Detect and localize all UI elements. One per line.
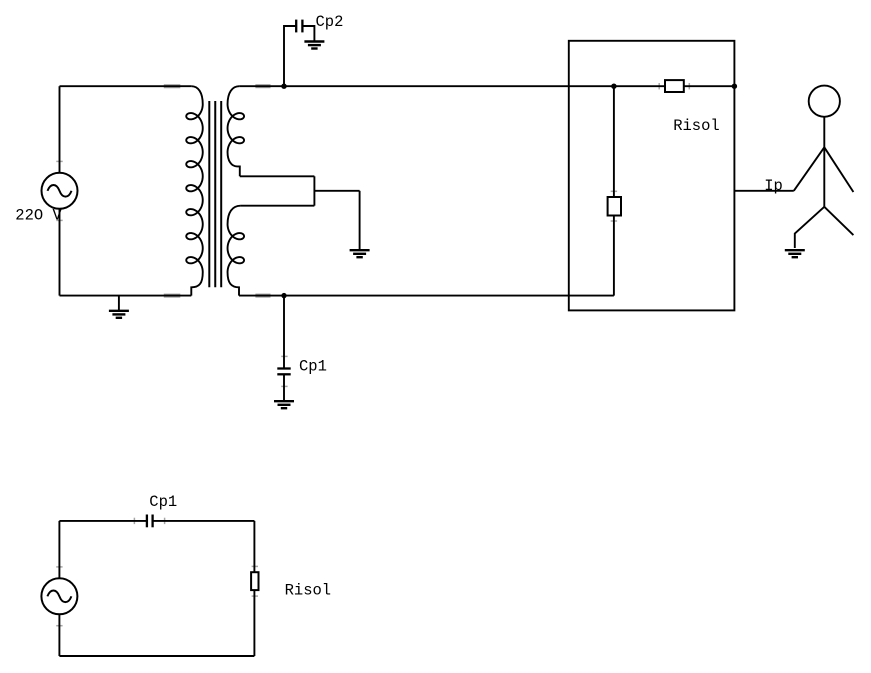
svg-text:Cp1: Cp1: [299, 357, 327, 375]
wire top-left horizontal (source to primary): [60, 85, 192, 87]
person head: [809, 86, 840, 117]
terminal tick below source V2: [56, 625, 62, 627]
bottom circuit: wire top-left segment: [59, 520, 146, 522]
overlap mark gray band top-left transformer terminal: [164, 84, 181, 88]
node A junction dot (Cp2 tap): [281, 84, 286, 89]
svg-text:Cp2: Cp2: [316, 13, 344, 31]
svg-text:Cp1: Cp1: [149, 493, 177, 511]
overlap mark gray band bottom-right transformer terminal: [255, 294, 270, 298]
wire center-tap lower horizontal: [241, 205, 315, 207]
terminal tick left of resistor R1: [658, 83, 660, 89]
resistor R3 Risol (bottom circuit): [251, 572, 258, 590]
person left leg: [795, 207, 825, 248]
terminal tick above source V2: [56, 566, 62, 568]
svg-text:Ip: Ip: [764, 177, 783, 195]
ground G1 (primary circuit): [109, 311, 129, 318]
wire bottom secondary horizontal (to box): [239, 295, 614, 297]
wire center-tap to ground horizontal: [314, 190, 359, 192]
terminal tick right of capacitor Cp1 (bottom circuit): [164, 518, 166, 524]
bottom circuit: wire top-right segment: [153, 520, 255, 522]
capacitor Cp2 plates: [296, 20, 302, 33]
terminal tick above capacitor Cp1: [281, 355, 287, 357]
terminal tick above resistor R2: [611, 190, 617, 192]
ground G3 (Cp2): [304, 42, 324, 49]
wire left vertical lower: [59, 209, 61, 296]
terminal tick right of resistor R1: [688, 83, 690, 89]
ground G2 (center tap): [350, 250, 370, 257]
svg-text:22O V: 22O V: [15, 207, 62, 225]
terminal tick above source V1: [56, 160, 62, 162]
bottom circuit: wire right vertical: [253, 521, 255, 656]
terminal tick above resistor R3: [252, 565, 258, 567]
wire vertical inside box: [613, 86, 615, 295]
transformer T1 secondary lower winding: [228, 206, 245, 296]
ground G4 (Cp1): [274, 401, 294, 408]
overlap mark gray band top-right transformer terminal: [255, 84, 270, 88]
terminal tick below resistor R2: [611, 220, 617, 222]
terminal tick below source V1: [56, 219, 62, 221]
resistor R1 (horizontal, in box): [665, 80, 684, 92]
wire top secondary horizontal (to box): [239, 85, 734, 87]
bottom circuit: wire bottom horizontal: [59, 655, 254, 657]
isolation barrier box: [569, 41, 735, 311]
terminal tick below capacitor Cp1: [281, 385, 287, 387]
voltage source V2 (circle with sine): [41, 578, 77, 614]
capacitor Cp1 drop wire: [283, 296, 285, 369]
wire center-tap upper horizontal: [240, 175, 315, 177]
resistor R2 (vertical, in box): [608, 197, 621, 216]
person right leg: [824, 207, 853, 235]
node D junction dot (Cp1 tap): [281, 293, 286, 298]
person body: [823, 117, 825, 207]
wire center-tap vertical join: [313, 176, 315, 205]
overlap mark gray band bottom-left transformer terminal: [164, 294, 181, 298]
terminal tick below resistor R3: [252, 595, 258, 597]
capacitor Cp2 riser wire: [284, 26, 296, 86]
bottom circuit: wire left vertical lower: [58, 614, 60, 656]
person left arm (to wire): [794, 147, 825, 191]
wire Ip (box to person hand): [734, 190, 793, 192]
node B junction dot (in box): [611, 84, 616, 89]
wire center-tap ground stem: [359, 191, 361, 250]
voltage source V1 220V (circle with sine): [42, 173, 78, 209]
bottom circuit: wire left vertical upper: [58, 521, 60, 578]
transformer T1 primary winding: [186, 86, 203, 295]
person right arm: [824, 147, 853, 192]
node C junction dot (box right edge): [732, 84, 737, 89]
svg-text:Risol: Risol: [285, 581, 332, 599]
capacitor Cp1 plates: [277, 369, 290, 375]
ground G5 (person): [785, 250, 805, 257]
wire bottom-left horizontal (source to primary): [60, 295, 192, 297]
capacitor Cp2 right lead to ground: [302, 26, 314, 41]
ground G1 stem (primary circuit ground): [118, 296, 120, 311]
capacitor Cp1 lower lead: [283, 374, 285, 401]
transformer T1 secondary upper winding: [228, 86, 245, 176]
terminal tick left of capacitor Cp1 (bottom circuit): [133, 518, 135, 524]
capacitor Cp1 (bottom circuit) plates: [147, 515, 153, 528]
wire left vertical upper: [59, 86, 61, 173]
transformer T1 core: [209, 101, 221, 287]
svg-text:Risol: Risol: [673, 117, 720, 135]
